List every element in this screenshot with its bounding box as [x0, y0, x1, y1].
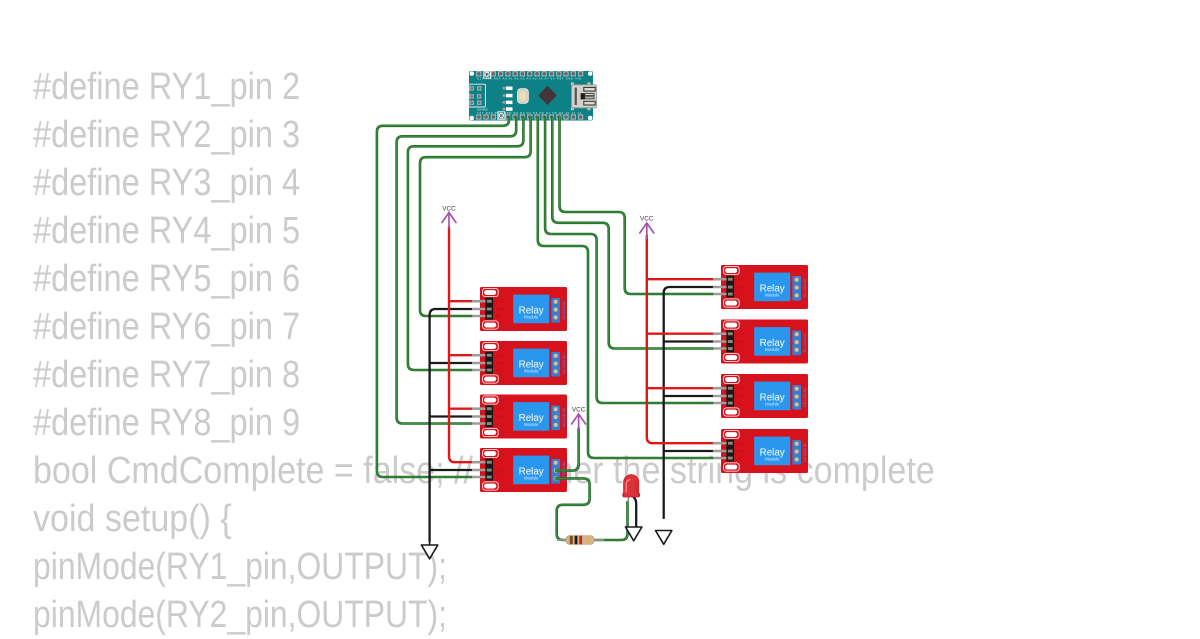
wire RY2 GND: [430, 362, 471, 364]
wire RY5 VCC: [647, 278, 712, 280]
relay module RY4: [470, 448, 567, 492]
black GND bus right: [664, 287, 712, 518]
ground GND1 (led): [626, 527, 642, 541]
wire VCC3 to RY4 COM: [556, 429, 579, 471]
wire D5 to RY1 IN: [420, 117, 531, 316]
wire D6 to RY8 IN: [538, 117, 712, 458]
relay module RY7: [711, 374, 808, 418]
black GND bus left: [430, 309, 471, 541]
wire D9 to RY5 IN: [560, 117, 713, 294]
wire D2 to RY4 IN: [377, 117, 509, 477]
vcc symbol VCC2: [640, 216, 654, 239]
wire resistor R1 to LED anode: [594, 502, 628, 540]
vcc symbol VCC3: [572, 407, 586, 430]
relay module RY2: [470, 341, 567, 385]
relay module RY1: [470, 287, 567, 331]
ground GND3 (left bus): [421, 541, 437, 559]
svg-text:D13 3V3 REF A0 A1 A2 A3 A4 A5: D13 3V3 REF A0 A1 A2 A3 A4 A5 A6 A7 5V R…: [477, 77, 581, 81]
wire RY3 VCC: [449, 408, 471, 410]
wire RY6 GND: [664, 340, 712, 342]
wire D8 to RY6 IN: [552, 117, 712, 349]
led LED1 red: [622, 475, 640, 503]
red VCC bus left: [449, 227, 471, 462]
wire RY6 VCC: [647, 333, 712, 335]
wire RY8 GND: [664, 450, 712, 452]
svg-text:1614009: 1614009: [477, 108, 488, 112]
red VCC bus right: [647, 236, 712, 444]
relay module RY8: [711, 429, 808, 473]
relay module RY5: [711, 265, 808, 309]
wire RY4 NC to resistor R1: [556, 478, 590, 540]
relay module RY6: [711, 320, 808, 364]
svg-text:TX1 RX0 RST GND D2 D3 D4 D5 D6: TX1 RX0 RST GND D2 D3 D4 D5 D6 D7 D8 D9 …: [477, 111, 582, 115]
wire RY1 VCC: [449, 300, 471, 302]
arduino nano U1: [469, 71, 597, 121]
svg-text:VCC: VCC: [572, 407, 586, 414]
vcc symbol VCC1: [442, 206, 456, 229]
ground GND2 (right bus): [656, 531, 672, 545]
code text background: [33, 63, 1039, 639]
relay module RY3: [470, 395, 567, 439]
wire RY2 VCC: [449, 354, 471, 356]
wire D7 to RY7 IN: [545, 117, 712, 403]
wire D3 to RY3 IN: [397, 117, 517, 424]
resistor R1 1kΩ: [557, 536, 604, 545]
wire RY3 GND: [430, 415, 471, 417]
wire D4 to RY2 IN: [408, 117, 524, 370]
wire LED cathode to ground: [633, 497, 636, 527]
wire RY7 VCC: [647, 387, 712, 389]
svg-text:VCC: VCC: [640, 216, 654, 223]
wire RY7 GND: [664, 395, 712, 397]
wire RY4 GND: [430, 469, 471, 471]
